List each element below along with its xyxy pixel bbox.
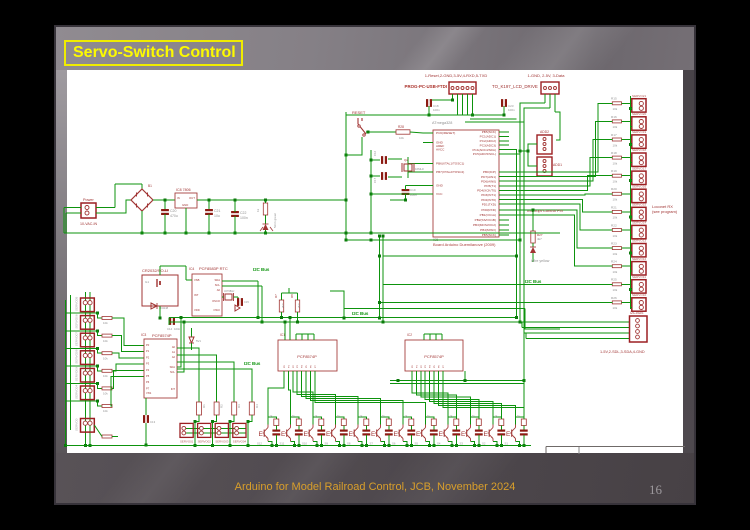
svg-text:P5: P5 (146, 374, 150, 378)
svg-text:R17: R17 (611, 133, 617, 137)
svg-text:P0: P0 (412, 365, 414, 368)
svg-text:E: E (326, 431, 330, 438)
svg-text:10k: 10k (613, 288, 618, 292)
svg-text:PD0(RXD): PD0(RXD) (481, 208, 496, 212)
svg-text:OUT: OUT (189, 196, 195, 200)
svg-text:E: E (281, 431, 285, 438)
svg-text:PCF8574P: PCF8574P (424, 354, 444, 359)
svg-text:10k: 10k (399, 136, 404, 140)
svg-text:SERVO12: SERVO12 (632, 257, 646, 261)
svg-text:PB3(MOSI/OC2): PB3(MOSI/OC2) (473, 223, 496, 227)
svg-text:ADD2: ADD2 (540, 130, 549, 134)
svg-text:C20: C20 (170, 209, 176, 213)
svg-text:10k: 10k (103, 356, 108, 360)
svg-text:PB0(ICP): PB0(ICP) (483, 170, 496, 174)
svg-text:10k: 10k (613, 270, 618, 274)
svg-text:R25: R25 (611, 278, 617, 282)
svg-text:R19: R19 (611, 169, 617, 173)
svg-text:PD2(INT0): PD2(INT0) (481, 198, 496, 202)
svg-text:SERVO0: SERVO0 (75, 418, 79, 431)
svg-text:R15: R15 (611, 97, 617, 101)
svg-text:SERVO17: SERVO17 (632, 166, 646, 170)
svg-text:C15: C15 (244, 300, 249, 304)
svg-text:10k: 10k (103, 392, 108, 396)
svg-text:(see program): (see program) (652, 209, 678, 214)
svg-text:R23: R23 (611, 242, 617, 246)
svg-text:10k: 10k (613, 216, 618, 220)
svg-text:INT: INT (194, 293, 199, 297)
svg-text:P6: P6 (146, 380, 150, 384)
svg-text:SERVO08: SERVO08 (75, 349, 79, 363)
svg-text:E: E (349, 431, 353, 438)
svg-text:100n: 100n (508, 108, 515, 112)
svg-text:R16: R16 (611, 115, 617, 119)
svg-text:SERVO14: SERVO14 (632, 221, 646, 225)
svg-text:R7: R7 (274, 294, 278, 298)
svg-text:OSCI: OSCI (213, 308, 220, 312)
svg-text:SERVO13: SERVO13 (632, 239, 646, 243)
svg-text:IC8 7806: IC8 7806 (176, 188, 191, 192)
svg-text:I2C Bus: I2C Bus (525, 279, 542, 284)
svg-text:SCL: SCL (170, 370, 176, 374)
svg-text:P3: P3 (146, 362, 150, 366)
svg-text:PC1(ADC1): PC1(ADC1) (480, 135, 496, 139)
svg-text:P7: P7 (315, 365, 317, 368)
svg-text:PB7(XTAL2/TOSC2): PB7(XTAL2/TOSC2) (436, 170, 464, 174)
svg-text:I2C Bus: I2C Bus (244, 361, 261, 366)
svg-text:10k: 10k (613, 198, 618, 202)
svg-text:R18: R18 (611, 151, 617, 155)
svg-text:10u: 10u (214, 214, 220, 218)
svg-text:I2C-BUS: I2C-BUS (630, 311, 644, 315)
svg-text:SERVO07: SERVO07 (75, 332, 79, 346)
svg-text:VDD: VDD (194, 308, 200, 312)
svg-text:10k: 10k (613, 234, 618, 238)
svg-text:A0: A0 (172, 345, 176, 349)
svg-text:VSS: VSS (146, 391, 151, 395)
svg-text:R28: R28 (398, 125, 404, 129)
svg-text:16MHz: 16MHz (415, 167, 424, 171)
svg-text:E: E (394, 431, 398, 438)
svg-text:E: E (416, 431, 420, 438)
svg-text:10k: 10k (613, 180, 618, 184)
svg-text:IC2: IC2 (407, 333, 412, 337)
svg-text:E: E (484, 431, 488, 438)
svg-text:IC4: IC4 (189, 267, 194, 271)
svg-text:ATmega328: ATmega328 (432, 121, 452, 125)
svg-text:E: E (439, 431, 443, 438)
svg-text:1k: 1k (256, 208, 260, 212)
svg-text:P2: P2 (146, 355, 150, 359)
svg-text:A1: A1 (172, 350, 176, 354)
svg-text:10k: 10k (613, 107, 618, 111)
svg-text:10k: 10k (103, 374, 108, 378)
svg-text:P4: P4 (430, 365, 432, 368)
svg-text:SERVO11: SERVO11 (632, 275, 646, 279)
svg-text:RESET: RESET (352, 110, 366, 115)
svg-text:10-VAC-IN: 10-VAC-IN (80, 222, 98, 226)
svg-text:P6: P6 (310, 365, 312, 368)
svg-text:C13: C13 (150, 420, 156, 424)
svg-text:E: E (506, 431, 510, 438)
svg-text:100n: 100n (240, 216, 248, 220)
svg-text:1-GND, 2-5V, 3-Data: 1-GND, 2-5V, 3-Data (528, 73, 566, 78)
svg-text:R21: R21 (611, 205, 617, 209)
svg-text:IC1: IC1 (280, 333, 285, 337)
svg-text:C16: C16 (373, 150, 377, 156)
svg-text:Q2: Q2 (404, 158, 408, 162)
svg-text:SERVO21: SERVO21 (632, 94, 646, 98)
svg-text:SERVO15: SERVO15 (632, 203, 646, 207)
svg-text:R2: R2 (220, 404, 224, 408)
svg-text:SERVO20: SERVO20 (632, 112, 646, 116)
svg-text:R24: R24 (611, 260, 617, 264)
svg-text:SERVO19: SERVO19 (632, 130, 646, 134)
svg-text:PD1(TXD): PD1(TXD) (482, 202, 496, 206)
svg-text:R3: R3 (237, 404, 241, 408)
svg-text:SERVO05: SERVO05 (75, 297, 79, 311)
svg-text:TO_K197_LCD_DRIVE: TO_K197_LCD_DRIVE (492, 84, 538, 89)
svg-text:PCF8583P RTC: PCF8583P RTC (199, 266, 228, 271)
svg-text:10k: 10k (613, 161, 618, 165)
svg-text:SERVO04: SERVO04 (75, 385, 79, 399)
svg-text:C21: C21 (214, 209, 220, 213)
svg-text:SDA: SDA (214, 278, 220, 282)
svg-text:A0: A0 (217, 288, 221, 292)
svg-text:VCC: VCC (436, 192, 443, 196)
svg-text:SERVO16: SERVO16 (632, 184, 646, 188)
svg-text:4k7: 4k7 (281, 303, 285, 308)
svg-text:10k: 10k (613, 306, 618, 310)
svg-text:C19: C19 (410, 188, 416, 192)
svg-text:P2: P2 (421, 365, 423, 368)
svg-text:10k: 10k (103, 321, 108, 325)
svg-text:SERVO04: SERVO04 (233, 440, 247, 444)
svg-text:470u: 470u (170, 214, 178, 218)
svg-text:10k: 10k (103, 409, 108, 413)
svg-text:R1: R1 (202, 404, 206, 408)
svg-text:IN: IN (177, 196, 180, 200)
svg-text:P0: P0 (284, 365, 286, 368)
svg-text:SERVO03: SERVO03 (215, 440, 229, 444)
svg-text:P2: P2 (293, 365, 295, 368)
svg-text:PB1(OC1A): PB1(OC1A) (480, 213, 496, 217)
svg-text:R8: R8 (290, 294, 294, 298)
svg-text:1-5V,2-SDL,3-SDA,4-GND: 1-5V,2-SDL,3-SDA,4-GND (600, 350, 645, 354)
svg-text:CR2032/SO-LI: CR2032/SO-LI (142, 268, 168, 273)
svg-text:1-Reset,2-GND,3-5V,4-RXD,5-TXD: 1-Reset,2-GND,3-5V,4-RXD,5-TXD (425, 73, 488, 78)
svg-text:E: E (461, 431, 465, 438)
svg-text:PC4(ADC4/SDA): PC4(ADC4/SDA) (472, 148, 496, 152)
svg-text:PD5(T1): PD5(T1) (484, 184, 496, 188)
svg-text:SERVO02: SERVO02 (198, 440, 212, 444)
svg-text:R20: R20 (611, 187, 617, 191)
svg-text:P0: P0 (146, 343, 150, 347)
svg-text:AVCC: AVCC (436, 148, 445, 152)
svg-text:SERVO06: SERVO06 (75, 314, 79, 328)
svg-text:Board Arduino Duemilanove (200: Board Arduino Duemilanove (2009) (433, 242, 496, 247)
svg-text:PCF8574P: PCF8574P (152, 333, 172, 338)
svg-text:A2: A2 (172, 355, 176, 359)
svg-text:Wire yellow: Wire yellow (531, 259, 550, 263)
svg-text:P3: P3 (425, 365, 427, 368)
svg-text:GND: GND (436, 184, 444, 188)
svg-text:C22: C22 (240, 211, 246, 215)
svg-text:SDA: SDA (170, 365, 176, 369)
svg-text:B1: B1 (148, 184, 152, 188)
svg-text:P5: P5 (434, 365, 436, 368)
svg-text:4k7: 4k7 (297, 303, 301, 308)
svg-text:PB6(XTAL1/TOSC1): PB6(XTAL1/TOSC1) (436, 162, 464, 166)
svg-text:C17: C17 (373, 177, 377, 183)
svg-text:VSB: VSB (194, 278, 200, 282)
svg-text:4k7: 4k7 (537, 237, 542, 241)
svg-text:C14: C14 (167, 327, 173, 331)
svg-text:R4: R4 (255, 404, 259, 408)
svg-text:10k: 10k (613, 252, 618, 256)
svg-text:PB5(SCK): PB5(SCK) (482, 233, 496, 237)
svg-text:P1: P1 (416, 365, 418, 368)
svg-text:R26: R26 (611, 296, 617, 300)
svg-text:PD6(AIN0): PD6(AIN0) (481, 179, 496, 183)
svg-text:SERVO10: SERVO10 (632, 293, 646, 297)
svg-text:I2C Bus: I2C Bus (352, 311, 369, 316)
svg-text:E: E (304, 431, 308, 438)
svg-text:R22: R22 (611, 223, 617, 227)
svg-text:SCL: SCL (215, 283, 221, 287)
svg-text:INT: INT (171, 387, 176, 391)
svg-text:P7: P7 (443, 365, 445, 368)
svg-text:G1: G1 (145, 280, 149, 284)
svg-text:P1: P1 (146, 349, 150, 353)
svg-text:100n: 100n (433, 108, 440, 112)
svg-text:OSCO: OSCO (212, 299, 220, 303)
svg-text:PROG-PC-USB-FTDI: PROG-PC-USB-FTDI (405, 84, 447, 89)
svg-text:P4: P4 (146, 368, 150, 372)
svg-text:PD3(INT1): PD3(INT1) (481, 193, 496, 197)
svg-text:PB5(SCK): PB5(SCK) (482, 130, 496, 134)
svg-text:P1: P1 (288, 365, 290, 368)
svg-text:PC5(ADC5/SCL): PC5(ADC5/SCL) (473, 152, 496, 156)
svg-text:PC3(ADC3): PC3(ADC3) (480, 143, 496, 147)
svg-text:PD7(AIN1): PD7(AIN1) (481, 175, 496, 179)
svg-text:E: E (371, 431, 375, 438)
svg-text:I2C Bus: I2C Bus (253, 267, 270, 272)
svg-text:SERVO01: SERVO01 (180, 440, 194, 444)
svg-text:PB4(MISO): PB4(MISO) (480, 228, 496, 232)
svg-text:P5: P5 (306, 365, 308, 368)
svg-text:P6: P6 (438, 365, 440, 368)
svg-text:SERVO18: SERVO18 (632, 148, 646, 152)
svg-text:GND: GND (182, 203, 188, 207)
svg-text:10k: 10k (613, 125, 618, 129)
svg-text:5V1: 5V1 (196, 339, 201, 343)
svg-text:100n: 100n (174, 327, 181, 331)
svg-text:Power: Power (83, 198, 94, 202)
svg-text:IC3: IC3 (141, 333, 146, 337)
svg-text:32768Hz: 32768Hz (224, 289, 235, 293)
svg-text:PD4(XCK/T0): PD4(XCK/T0) (477, 189, 496, 193)
svg-text:E: E (259, 431, 263, 438)
svg-text:PC2(ADC2): PC2(ADC2) (480, 139, 496, 143)
svg-text:PC6(/RESET): PC6(/RESET) (436, 131, 455, 135)
svg-text:P4: P4 (302, 365, 304, 368)
svg-text:P7: P7 (146, 386, 150, 390)
svg-text:SERVO09: SERVO09 (75, 367, 79, 381)
svg-text:PB2(SS/OC1B): PB2(SS/OC1B) (475, 218, 496, 222)
svg-text:5mm green: 5mm green (273, 212, 277, 228)
svg-text:P3: P3 (297, 365, 299, 368)
svg-text:ADD1: ADD1 (553, 163, 562, 167)
svg-text:PCF8574P: PCF8574P (297, 354, 317, 359)
svg-text:10k: 10k (103, 339, 108, 343)
svg-text:10k: 10k (613, 143, 618, 147)
